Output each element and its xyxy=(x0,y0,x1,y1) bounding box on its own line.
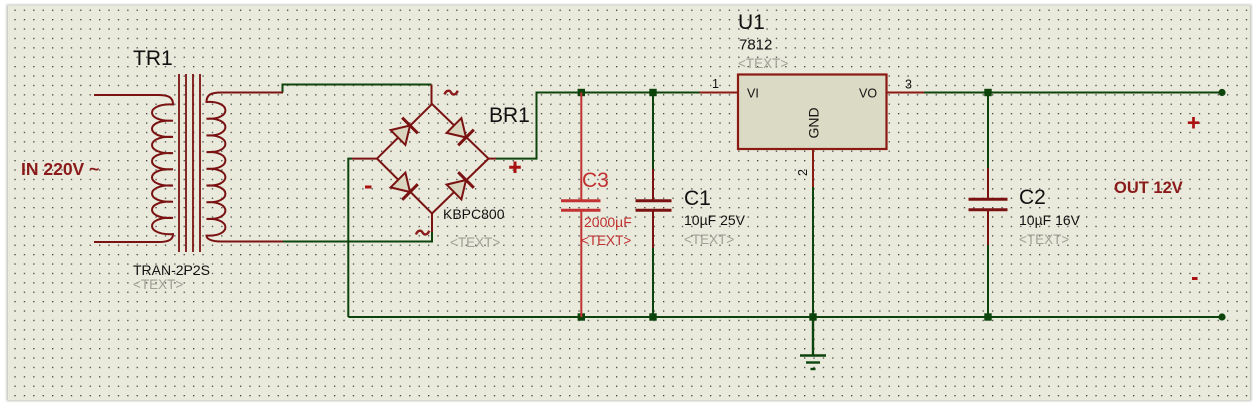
svg-text:OUT 12V: OUT 12V xyxy=(1114,179,1183,197)
svg-text:<TEXT>: <TEXT> xyxy=(684,232,734,247)
diode D1 top-left xyxy=(391,118,418,145)
capacitor C1 xyxy=(636,169,672,248)
svg-text:GND: GND xyxy=(806,107,822,138)
regulator U1 7812 xyxy=(700,75,925,188)
wire: bottom ground rail xyxy=(348,316,1222,318)
svg-text:2: 2 xyxy=(796,169,810,176)
bridge rectifier BR1 xyxy=(352,85,496,233)
wire: C2 column xyxy=(987,93,989,318)
pin stub right xyxy=(489,158,497,160)
junction node at U1 ground xyxy=(809,313,816,320)
label ~ at bridge bottom xyxy=(416,231,429,235)
pin 3 stub xyxy=(887,92,925,94)
svg-text:C2: C2 xyxy=(1019,186,1046,209)
pin stub left xyxy=(352,158,377,160)
svg-text:7812: 7812 xyxy=(739,37,772,54)
label ~ at bridge top xyxy=(445,91,458,95)
junction node at C3 bottom xyxy=(578,313,585,320)
wire: secondary top to bridge top xyxy=(283,85,432,93)
svg-text:BR1: BR1 xyxy=(489,104,530,127)
junction node at C2 top xyxy=(984,89,991,96)
pin 1 stub xyxy=(700,92,739,94)
svg-text:TRAN-2P2S: TRAN-2P2S xyxy=(133,262,210,278)
capacitor C2 xyxy=(969,168,1008,245)
svg-text:C1: C1 xyxy=(684,187,711,210)
svg-text:IN 220V ~: IN 220V ~ xyxy=(21,159,99,179)
svg-text:VO: VO xyxy=(859,87,877,101)
junction node at C1 bottom xyxy=(649,313,656,320)
label - output xyxy=(1192,277,1198,280)
svg-text:1: 1 xyxy=(712,77,719,91)
diode D2 top-right xyxy=(447,118,474,145)
pin 2 stub xyxy=(812,149,814,187)
capacitor C3 (highlighted red) xyxy=(561,93,601,318)
junction node at C2 bottom xyxy=(984,313,991,320)
svg-text:<TEXT>: <TEXT> xyxy=(1019,232,1069,247)
svg-text:TR1: TR1 xyxy=(133,47,173,70)
label + output xyxy=(1188,117,1199,129)
node: right terminal + end dot xyxy=(1218,89,1225,96)
label + at bridge right xyxy=(509,162,521,174)
pin stub top xyxy=(431,85,433,105)
svg-text:<TEXT>: <TEXT> xyxy=(738,56,788,71)
svg-text:10µF 16V: 10µF 16V xyxy=(1019,212,1081,228)
diamond body xyxy=(377,104,489,214)
svg-text:U1: U1 xyxy=(738,11,765,34)
svg-text:<TEXT>: <TEXT> xyxy=(581,233,631,248)
node: right terminal - end dot xyxy=(1218,313,1225,320)
svg-text:2000µF: 2000µF xyxy=(584,214,632,230)
svg-text:<TEXT>: <TEXT> xyxy=(450,235,500,250)
svg-text:<TEXT>: <TEXT> xyxy=(133,277,183,292)
wire: bridge + output up to top rail xyxy=(496,93,700,159)
diode D3 bottom-left xyxy=(391,173,418,200)
label - at bridge left xyxy=(365,186,372,189)
wire: C1 column xyxy=(652,93,654,318)
wire: top rail from U1 pin3 to right terminal xyxy=(924,92,1222,94)
svg-text:KBPC800: KBPC800 xyxy=(443,206,505,222)
svg-text:VI: VI xyxy=(747,87,759,101)
svg-text:C3: C3 xyxy=(582,169,609,192)
junction node at C3 top xyxy=(578,89,585,96)
svg-text:3: 3 xyxy=(905,78,912,92)
ground symbol xyxy=(800,317,826,369)
pin stub bottom xyxy=(431,214,433,233)
transformer TR1 xyxy=(94,74,283,252)
wire: transformer secondary bottom to bridge bottom xyxy=(283,232,432,242)
svg-text:10µF 25V: 10µF 25V xyxy=(684,212,746,228)
wire: U1 pin2 down to ground rail xyxy=(812,187,814,317)
junction node at C1 top xyxy=(649,89,656,96)
diode D4 bottom-right xyxy=(447,172,474,199)
wire: bridge minus to ground rail xyxy=(348,159,352,317)
